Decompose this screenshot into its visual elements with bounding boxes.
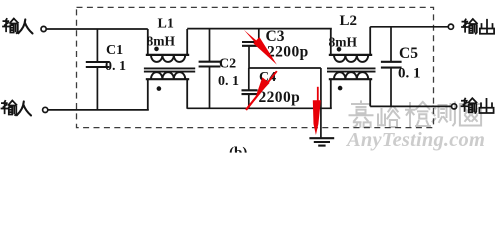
capacitor C2 [199, 29, 221, 109]
svg-text:8mH: 8mH [329, 34, 358, 49]
svg-text:0. 1: 0. 1 [105, 59, 126, 74]
svg-text:0. 1: 0. 1 [218, 74, 239, 89]
svg-text:L2: L2 [340, 13, 358, 29]
wire bottom rail right [370, 105, 451, 107]
annotation arrow at ground [313, 87, 321, 135]
capacitor C1 [86, 29, 110, 110]
capacitor C5 [381, 27, 402, 107]
svg-text:2200p: 2200p [267, 44, 309, 61]
polarity dot L2 top [337, 47, 342, 52]
svg-text:2200p: 2200p [259, 89, 301, 106]
dashed enclosure [77, 7, 434, 127]
capacitor C3 [242, 29, 262, 69]
annotation arrow at C4 [245, 71, 278, 111]
label 输入 (top input) [3, 19, 33, 34]
wire top rail left [46, 28, 147, 30]
svg-text:AnyTesting.com: AnyTesting.com [345, 129, 485, 151]
scan crop band [180, 153, 320, 156]
svg-text:0. 1: 0. 1 [398, 65, 421, 81]
node: C3/C4 midpoint to earth [249, 67, 321, 69]
svg-text:C2: C2 [219, 56, 236, 71]
inductor L1 (common-mode choke) [144, 29, 195, 110]
wire bottom rail left [48, 109, 149, 111]
svg-text:8mH: 8mH [147, 34, 176, 49]
svg-text:C1: C1 [106, 43, 123, 58]
annotation arrow at C3 [244, 30, 277, 65]
label 输入 (bottom input) [2, 101, 32, 116]
watermark 嘉峪检测网 [350, 101, 482, 127]
polarity dot L1 top [154, 47, 159, 52]
input terminal top [41, 26, 46, 31]
label 输出 (top output) [462, 19, 494, 34]
label 输出 (bottom output) [462, 98, 494, 113]
input terminal bottom [43, 107, 48, 112]
inductor L2 (common-mode choke) [327, 27, 376, 109]
ground [309, 138, 334, 145]
wire top rail middle [187, 28, 332, 30]
output terminal bottom [452, 104, 457, 109]
wire earth drop [320, 68, 322, 138]
polarity dot L1 bottom [157, 86, 162, 91]
svg-text:C5: C5 [399, 45, 418, 62]
svg-text:L1: L1 [158, 17, 174, 32]
wire bottom rail middle [187, 107, 332, 109]
svg-text:C3: C3 [266, 28, 285, 45]
capacitor C4 [242, 68, 258, 108]
wire top rail right [370, 26, 448, 28]
output terminal top [448, 24, 453, 29]
polarity dot L2 bottom [338, 86, 343, 91]
